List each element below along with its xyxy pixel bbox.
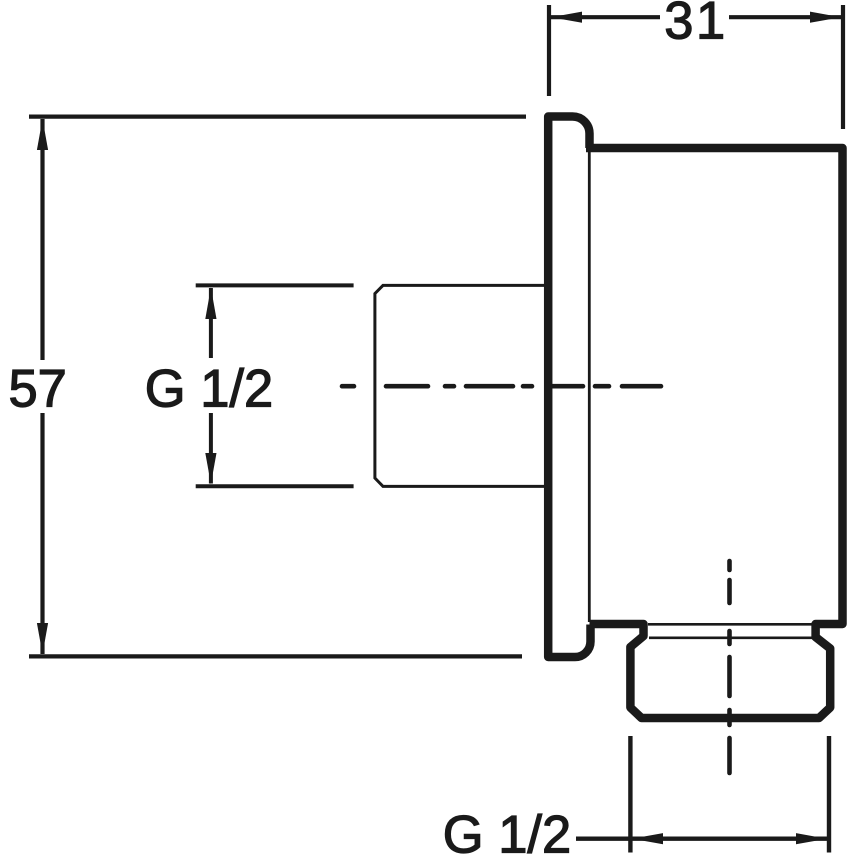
dimension G 1/2 rear boss: bottom extension line [196,484,354,488]
dimension G 1/2 bottom outlet: left extension line [628,736,632,853]
neck upper edge (thin) [648,623,812,626]
dimension G 1/2 bottom outlet: right arrow [796,833,827,844]
dimension G 1/2 rear boss: down arrow [205,453,216,484]
vertical centerline (dash-dot) [727,561,732,773]
wall flange outline [548,117,590,658]
dimension 31: right arrow [810,12,841,23]
dimension G 1/2 rear boss: top extension line [196,283,354,287]
body and bottom nut outline [586,148,843,718]
svg-text:31: 31 [664,0,727,51]
dimension 31: left extension line [547,5,551,96]
flange face edge (thin) [588,150,591,622]
svg-text:G 1/2: G 1/2 [145,360,273,419]
dimension 57: down arrow [37,623,48,654]
dimension 57: dimension line upper part [40,119,44,360]
dimension 31: right extension line [841,5,845,129]
dimension G 1/2 rear boss: dimension line lower part [209,413,213,484]
svg-text:57: 57 [8,360,66,419]
dimension 31: dimension line right part [729,15,841,19]
dimension 57: up arrow [37,119,48,150]
dimension G 1/2 bottom outlet: right extension line [827,736,831,853]
dimension 31: left arrow [551,12,582,23]
dimension G 1/2 bottom outlet: left arrow [632,833,663,844]
dimension 57: top extension line [29,114,526,118]
svg-text:G 1/2: G 1/2 [443,806,571,857]
dimension 57: dimension line lower part [40,413,44,654]
dimension G 1/2 bottom outlet: dimension line [576,837,829,841]
dimension G 1/2 rear boss: up arrow [205,288,216,320]
rear thread boss G 1/2 (thin outline) [375,285,546,486]
nut top face edge (thin) [649,636,818,639]
dimension 57: bottom extension line [29,654,522,658]
dimension G 1/2 rear boss: dimension line upper part [209,288,213,358]
dimension 31: dimension line left part [551,15,660,19]
horizontal centerline (dash-dot) [342,384,661,389]
